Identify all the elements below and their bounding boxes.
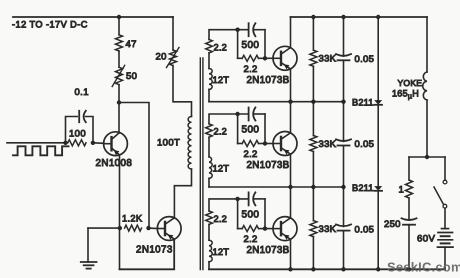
wire T column rail to Q3: [290, 17, 292, 48]
label B211 2: [352, 183, 374, 193]
wire Q3 emitter to bus1: [290, 69, 292, 102]
label 33K 1: [319, 54, 337, 65]
wire battery to bottom rail: [444, 247, 446, 269]
node 33K bus1: [311, 100, 315, 104]
node ground junction: [118, 226, 122, 230]
wire Q4 emitter to bus2: [290, 154, 292, 187]
wire switch to battery: [444, 208, 446, 229]
node 33K bus2: [311, 185, 315, 189]
wire rail to R47: [118, 17, 120, 35]
node stage 1 base: [263, 56, 267, 60]
resistor 33K 1: [310, 50, 317, 66]
label 12T 1: [213, 75, 230, 85]
label 2.2 stage 2: [244, 149, 258, 160]
node 0.05 bus1: [341, 100, 345, 104]
wire diode column: [377, 17, 379, 269]
wire 33K column: [312, 17, 314, 269]
watermark SeekIC.com: [387, 260, 460, 275]
svg-text:YOKE: YOKE: [398, 78, 423, 88]
inductor 12T 2: [209, 157, 212, 178]
node 33K top rail: [311, 15, 315, 19]
label 20: [156, 52, 167, 63]
capacitor 500 stage 2: [249, 108, 256, 121]
label 500 stage 3: [242, 209, 260, 220]
label 0.05 1: [355, 54, 375, 65]
label 60V: [417, 234, 435, 245]
label 500 stage 1: [242, 40, 260, 51]
wire stage 2 cap right drop: [264, 114, 266, 144]
rheostat 20: [167, 48, 180, 68]
wire Q5 emitter to bottom rail: [290, 239, 292, 269]
wire sec 3 mid: [208, 224, 210, 240]
node stage 3 cap junction: [235, 197, 239, 201]
wire node to Q1 emitter: [118, 103, 120, 134]
svg-text:12T: 12T: [213, 75, 230, 85]
svg-text:1: 1: [399, 185, 405, 196]
node diode column bottom: [376, 267, 380, 271]
resistor 1.2K: [125, 225, 142, 231]
switch blade: [434, 187, 444, 205]
label 0.05 2: [355, 139, 375, 150]
label 1: [399, 185, 405, 196]
wire R20 to primary top: [173, 66, 192, 117]
capacitor 0.05 3: [336, 224, 351, 230]
svg-text:2N1073: 2N1073: [136, 245, 173, 256]
capacitor 500 stage 1: [249, 23, 256, 36]
diode B211 1: [374, 100, 382, 105]
wire stage 1 base lead: [265, 57, 273, 59]
svg-text:SeekIC.com: SeekIC.com: [387, 260, 460, 275]
node yoke junction: [425, 155, 429, 159]
resistor 2.2 secondary 2: [206, 124, 213, 137]
wire bottom loop to Q2 emitter: [120, 239, 175, 269]
node supply/R47 junction: [117, 15, 121, 19]
transistor Q4 2N1073B: [273, 132, 297, 156]
wire secondary 3 top: [209, 199, 265, 211]
label 50: [126, 71, 137, 82]
node C250 bottom: [407, 267, 411, 271]
svg-text:12T: 12T: [213, 247, 230, 257]
wire Q2 base lead: [149, 227, 158, 229]
wire right rail: [291, 16, 428, 18]
svg-text:33K: 33K: [319, 224, 337, 235]
svg-text:-12 TO -17V D-C: -12 TO -17V D-C: [12, 20, 88, 30]
svg-text:47: 47: [126, 39, 137, 50]
label 2.2 stage 1: [244, 64, 258, 75]
inductor 12T 1: [209, 69, 212, 90]
node 0.05 top rail: [341, 15, 345, 19]
label YOKE: [398, 78, 423, 88]
wire bus1: [209, 101, 344, 103]
wire R47 to R50: [118, 51, 120, 67]
capacitor 500 stage 3: [249, 192, 256, 205]
node Q3 emitter bus1: [288, 100, 292, 104]
wire bus2: [209, 186, 344, 188]
wire primary bottom to Q2 collector: [174, 169, 191, 218]
wire 0.05 column: [343, 17, 345, 269]
svg-text:100: 100: [69, 128, 86, 139]
wire stage 3 cap left drop: [238, 199, 265, 232]
label 0.05 3: [355, 225, 375, 236]
svg-text:0.05: 0.05: [355, 139, 375, 150]
label 2N1073: [136, 245, 173, 256]
node C1/R100 right: [91, 141, 95, 145]
node Q4 emitter bus2: [288, 185, 292, 189]
wire yoke bottom: [426, 100, 428, 157]
resistor 2.2 secondary 3: [206, 211, 213, 224]
wire stage 1 cap right drop: [264, 30, 266, 59]
label -12 TO -17V D-C: [12, 20, 88, 30]
inductor primary 100T: [188, 117, 191, 170]
wire damper top: [409, 156, 445, 158]
wire secondary 2 top: [209, 114, 265, 124]
label B211 1: [352, 97, 374, 107]
switch contact top: [443, 180, 447, 184]
wire input: [7, 142, 66, 144]
node Q2 base: [146, 226, 150, 230]
inductor 12T 3: [209, 240, 212, 262]
node Q1 emitter junction: [117, 100, 121, 104]
resistor 1: [406, 180, 413, 198]
transformer core: [200, 58, 203, 270]
svg-text:250: 250: [384, 219, 401, 230]
diode B211 2: [374, 186, 382, 191]
wire stage 3 cap right drop: [264, 199, 266, 229]
wire sec 1 mid: [208, 53, 210, 69]
wire bus2 to Q5: [290, 187, 292, 218]
label 100T: [157, 138, 180, 149]
svg-text:500: 500: [242, 125, 260, 136]
switch contact bottom: [443, 204, 447, 208]
node 33K bottom: [311, 267, 315, 271]
label 165uH: [392, 89, 419, 101]
resistor 2.2 secondary 1: [206, 40, 213, 53]
inductor yoke 165uH: [423, 72, 427, 100]
transistor Q5 2N1073B: [273, 217, 297, 241]
ground: [81, 262, 97, 269]
wire to Q1 base: [93, 142, 104, 145]
label 33K 2: [319, 139, 337, 150]
svg-text:2.2: 2.2: [244, 149, 258, 160]
label 1.2K: [122, 214, 143, 224]
svg-text:500: 500: [242, 40, 260, 51]
label 12T 3: [213, 247, 230, 257]
svg-text:2.2: 2.2: [244, 234, 258, 245]
wire switch top: [444, 157, 446, 180]
node 0.05 bottom: [341, 267, 345, 271]
node stage 3 base: [263, 226, 267, 230]
node 0.05 bus2: [341, 185, 345, 189]
label 500 stage 2: [242, 125, 260, 136]
wire supply rail -12V: [13, 16, 173, 18]
rheostat 50: [112, 65, 125, 86]
resistor 47: [116, 35, 123, 51]
svg-text:2N1073B: 2N1073B: [247, 75, 290, 86]
wire bottom rail: [209, 268, 445, 270]
svg-text:100T: 100T: [157, 138, 180, 149]
wire rail to R20: [172, 17, 174, 50]
svg-text:33K: 33K: [319, 139, 337, 150]
resistor 100: [68, 140, 86, 146]
capacitor C1 0.1: [79, 111, 86, 122]
square wave input symbol: [13, 146, 69, 155]
label 2.2 sec 1: [214, 42, 228, 52]
svg-text:12T: 12T: [213, 164, 230, 174]
wire sec 2 mid: [208, 137, 210, 157]
wire C250 to bottom rail: [408, 225, 410, 270]
svg-text:0.1: 0.1: [75, 87, 89, 98]
label 250: [384, 219, 401, 230]
svg-text:2N1008: 2N1008: [96, 158, 133, 169]
node stage 1 cap junction: [235, 28, 239, 32]
node stage 2 base: [263, 141, 267, 145]
label 33K 3: [319, 224, 337, 235]
label 2N1073B 3: [247, 245, 290, 256]
svg-text:2.2: 2.2: [214, 214, 228, 224]
label 2.2 stage 3: [244, 234, 258, 245]
svg-text:60V: 60V: [417, 234, 435, 245]
node stage 2 cap junction: [235, 112, 239, 116]
transistor Q2 2N1073: [157, 217, 181, 241]
wire ground stem: [88, 228, 120, 262]
wire stage 2 base lead: [265, 143, 273, 145]
wire sec 3 bottom: [208, 262, 210, 270]
label 2.2 sec 3: [214, 214, 228, 224]
transistor Q1 2N1008: [104, 132, 128, 156]
wire C1 bypass loop: [66, 117, 94, 143]
resistor 33K 2: [310, 136, 317, 152]
node Q5 emitter bottom: [288, 267, 292, 271]
wire bus1 to Q4: [290, 102, 292, 133]
label 2N1073B 1: [247, 75, 290, 86]
label 47: [126, 39, 137, 50]
svg-text:0.05: 0.05: [355, 54, 375, 65]
svg-text:2N1073B: 2N1073B: [247, 160, 290, 171]
svg-text:2N1073B: 2N1073B: [247, 245, 290, 256]
svg-text:1.2K: 1.2K: [122, 214, 143, 224]
svg-text:2.2: 2.2: [214, 127, 228, 137]
svg-text:2.2: 2.2: [214, 42, 228, 52]
wire R1 to C250: [408, 198, 410, 219]
label 100: [69, 128, 86, 139]
wire Q1 collector down: [119, 155, 121, 228]
capacitor 0.05 2: [336, 139, 351, 145]
label 12T 2: [213, 164, 230, 174]
svg-text:50: 50: [126, 71, 137, 82]
capacitor 0.05 1: [336, 54, 351, 60]
resistor 33K 3: [310, 221, 317, 237]
label 2N1008: [96, 158, 133, 169]
label 0.1: [75, 87, 89, 98]
svg-text:33K: 33K: [319, 54, 337, 65]
capacitor 250: [402, 218, 417, 224]
battery 60V: [438, 229, 454, 248]
wire sec 2 bottom: [208, 178, 210, 187]
wire sec 1 bottom: [208, 89, 210, 101]
svg-text:2.2: 2.2: [244, 64, 258, 75]
wire R50 to node: [118, 85, 120, 103]
transistor Q3 2N1073B: [273, 46, 297, 70]
node C1/R100 left: [63, 141, 67, 145]
svg-text:0.05: 0.05: [355, 225, 375, 236]
wire stage 2 cap left drop: [238, 114, 265, 147]
wire emitter node to Q2 base column: [119, 103, 149, 229]
svg-text:B211: B211: [352, 183, 374, 193]
wire secondary 1 top: [209, 30, 265, 40]
svg-text:500: 500: [242, 209, 260, 220]
wire stage 3 base lead: [265, 228, 273, 230]
wire to R1: [408, 157, 410, 180]
wire yoke top: [426, 17, 428, 72]
svg-text:B211: B211: [352, 97, 374, 107]
wire stage 1 cap left drop: [238, 30, 265, 62]
label 2.2 sec 2: [214, 127, 228, 137]
wire Q1 collector to bottom loop: [119, 228, 121, 269]
label 2N1073B 2: [247, 160, 290, 171]
svg-text:20: 20: [156, 52, 167, 63]
node diode column top: [376, 15, 380, 19]
